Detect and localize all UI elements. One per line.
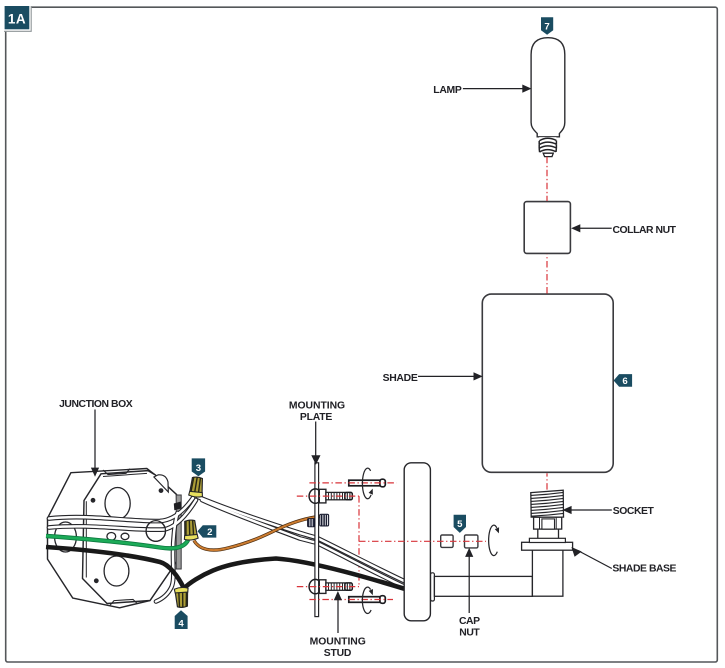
svg-text:7: 7: [544, 21, 549, 32]
svg-text:JUNCTION BOX: JUNCTION BOX: [59, 399, 133, 410]
svg-text:3: 3: [196, 463, 201, 474]
svg-text:LAMP: LAMP: [433, 85, 462, 96]
svg-text:COLLAR NUT: COLLAR NUT: [613, 225, 677, 236]
svg-text:2: 2: [207, 527, 212, 538]
svg-text:6: 6: [622, 376, 627, 387]
svg-text:5: 5: [457, 519, 463, 530]
svg-text:PLATE: PLATE: [300, 412, 333, 423]
svg-text:SOCKET: SOCKET: [613, 506, 655, 517]
svg-text:MOUNTING: MOUNTING: [289, 400, 345, 411]
svg-text:4: 4: [178, 619, 184, 630]
svg-text:1A: 1A: [8, 12, 26, 27]
svg-text:SHADE: SHADE: [383, 373, 418, 384]
svg-text:MOUNTING: MOUNTING: [310, 636, 366, 647]
svg-text:CAP: CAP: [459, 616, 480, 627]
svg-text:NUT: NUT: [459, 627, 480, 638]
svg-text:SHADE BASE: SHADE BASE: [612, 563, 676, 574]
svg-text:STUD: STUD: [324, 648, 352, 659]
